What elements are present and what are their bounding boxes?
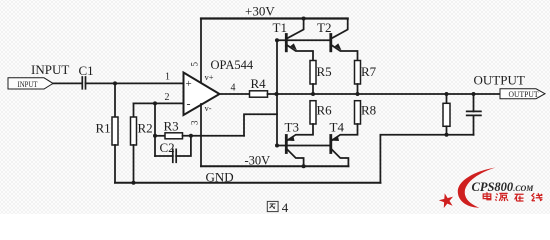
svg-text:R4: R4 xyxy=(251,76,267,91)
svg-text:2: 2 xyxy=(165,92,170,103)
线 xyxy=(532,193,543,201)
node R1 tap xyxy=(113,81,117,85)
svg-text:C1: C1 xyxy=(79,63,94,78)
swoosh xyxy=(458,168,496,208)
svg-text:R5: R5 xyxy=(317,64,332,79)
-30V rail xyxy=(201,165,348,167)
svg-text:T4: T4 xyxy=(330,120,345,135)
svg-text:R1: R1 xyxy=(96,121,111,136)
wire op-amp output xyxy=(220,93,250,95)
watermark text 电源在线 xyxy=(483,192,542,201)
svg-text:C2: C2 xyxy=(160,140,175,155)
wire T3/T4 base rail xyxy=(277,145,331,147)
GND rail xyxy=(115,182,380,184)
svg-text:T2: T2 xyxy=(317,20,331,35)
在 xyxy=(515,194,524,201)
wire R7 to rail xyxy=(357,84,359,94)
svg-text:3: 3 xyxy=(190,120,200,125)
wire pin5 supply xyxy=(200,19,202,83)
svg-text:OUTPUT: OUTPUT xyxy=(474,73,525,88)
wire output ground xyxy=(380,135,473,183)
resistor R2 xyxy=(133,103,135,117)
svg-text:-30V: -30V xyxy=(245,154,271,168)
op-amp U1 triangle xyxy=(184,73,220,116)
wire input line xyxy=(53,82,82,84)
node R5/R6 rail junction xyxy=(311,92,315,96)
svg-text:R7: R7 xyxy=(361,64,377,79)
transistor T4 xyxy=(331,124,358,166)
源 xyxy=(495,193,508,201)
+30V rail xyxy=(201,17,348,19)
resistor R7 xyxy=(355,61,361,85)
transistor T1 xyxy=(286,19,313,61)
svg-text:INPUT: INPUT xyxy=(31,62,69,77)
wire feedback step xyxy=(244,114,277,136)
svg-text:5: 5 xyxy=(190,62,200,67)
svg-text:v+: v+ xyxy=(205,72,214,82)
transistor T2 xyxy=(331,19,358,61)
resistor R8 xyxy=(355,101,361,124)
input tag xyxy=(8,78,53,89)
svg-text:R3: R3 xyxy=(164,119,179,134)
node base T1 xyxy=(275,38,279,42)
node R7/R8 rail junction xyxy=(356,92,360,96)
svg-text:+: + xyxy=(186,78,192,90)
node R3 tap xyxy=(153,101,157,105)
wire output rail xyxy=(268,93,501,95)
node R2 ground junction xyxy=(132,181,136,185)
caption 图 4 xyxy=(267,201,278,211)
svg-text:OUTPUT: OUTPUT xyxy=(509,89,540,99)
wire T1/T2 base rail xyxy=(277,39,331,41)
svg-text:T3: T3 xyxy=(285,120,299,135)
capacitor C1 xyxy=(82,77,85,89)
capacitor C2 xyxy=(155,155,173,157)
svg-text:-: - xyxy=(187,97,191,111)
star xyxy=(439,193,453,208)
wire base column xyxy=(276,40,278,145)
output capacitor xyxy=(473,94,475,111)
node load rail junction xyxy=(445,92,449,96)
watermark logo xyxy=(439,168,543,208)
resistor R6 xyxy=(310,101,316,124)
svg-text:T1: T1 xyxy=(273,20,287,35)
wire R5 to rail xyxy=(312,84,314,94)
svg-text:v-: v- xyxy=(205,103,212,113)
resistor R4 xyxy=(250,91,268,97)
wire pin3 to -30V xyxy=(200,104,202,166)
svg-text:4: 4 xyxy=(282,200,289,214)
svg-text:1: 1 xyxy=(165,72,170,83)
transistor T3 xyxy=(286,124,313,166)
svg-text:R2: R2 xyxy=(138,121,153,136)
resistor R1 xyxy=(114,83,116,117)
node output cap rail junction xyxy=(472,92,476,96)
svg-text:R6: R6 xyxy=(317,103,333,118)
node T3 collector junction xyxy=(302,164,306,168)
svg-text:INPUT: INPUT xyxy=(18,79,39,89)
svg-text:+30V: +30V xyxy=(245,4,275,19)
svg-text:4: 4 xyxy=(231,82,236,93)
node load ground junction xyxy=(445,133,449,137)
resistor R3 xyxy=(154,103,156,156)
node base T3 xyxy=(275,144,279,148)
wire C1 to op-amp pin1 xyxy=(86,82,184,84)
svg-text:GND: GND xyxy=(206,170,234,185)
wire pin2 line xyxy=(134,102,184,104)
电 xyxy=(483,192,491,200)
svg-text:OPA544: OPA544 xyxy=(211,58,254,72)
node R3/C2 right junction xyxy=(189,134,193,138)
node R3/C2 left junction xyxy=(153,134,157,138)
load resistor xyxy=(446,94,448,103)
node T1 collector junction xyxy=(302,17,306,21)
node drive xyxy=(275,92,279,96)
svg-text:R8: R8 xyxy=(361,103,376,118)
output tag xyxy=(500,89,545,99)
resistor R5 xyxy=(310,61,316,85)
